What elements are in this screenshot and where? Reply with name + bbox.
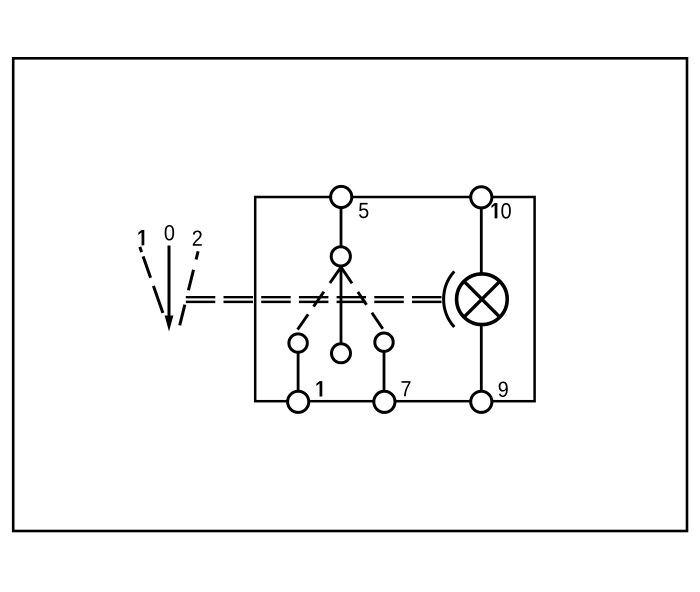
- wire right contact to terminal 7: [383, 342, 386, 402]
- wire terminal 5 to pivot: [340, 197, 343, 256]
- label 9: [499, 381, 508, 397]
- terminal 10: [471, 187, 492, 208]
- wire pivot to center contact: [340, 256, 343, 353]
- dashed contact path to terminal 7: [342, 268, 385, 331]
- label 1 (terminal): [316, 381, 322, 396]
- movable contact pivot: [331, 247, 350, 266]
- lever position 1 dashed: [140, 247, 163, 313]
- switch box S1: [255, 197, 534, 401]
- terminal 5: [331, 186, 352, 207]
- label 5: [359, 203, 368, 218]
- terminal 1: [288, 391, 309, 412]
- mechanical linkage lower dashed line: [186, 301, 442, 304]
- label 2 (lever): [193, 230, 202, 245]
- lever position 2 dashed: [180, 251, 198, 325]
- wire left contact to terminal 1: [297, 343, 300, 402]
- label 0 (lever): [165, 225, 174, 241]
- wire terminal 10 to terminal 9 through lamp: [480, 197, 483, 402]
- terminal 9: [471, 391, 492, 412]
- lamp reflector arc: [444, 271, 455, 327]
- lamp E1: [457, 274, 508, 325]
- terminal 7: [374, 391, 395, 412]
- border frame: [13, 58, 687, 531]
- lever position 0 arrow: [165, 246, 174, 332]
- mechanical linkage upper dashed line: [186, 296, 442, 298]
- label 1 (lever): [138, 230, 144, 245]
- contact circle left: [289, 334, 307, 352]
- label 7: [402, 381, 411, 396]
- contact circle middle: [332, 344, 351, 363]
- dashed contact path to terminal 1: [297, 268, 340, 330]
- contact circle right: [375, 333, 393, 351]
- label 10: [491, 203, 510, 219]
